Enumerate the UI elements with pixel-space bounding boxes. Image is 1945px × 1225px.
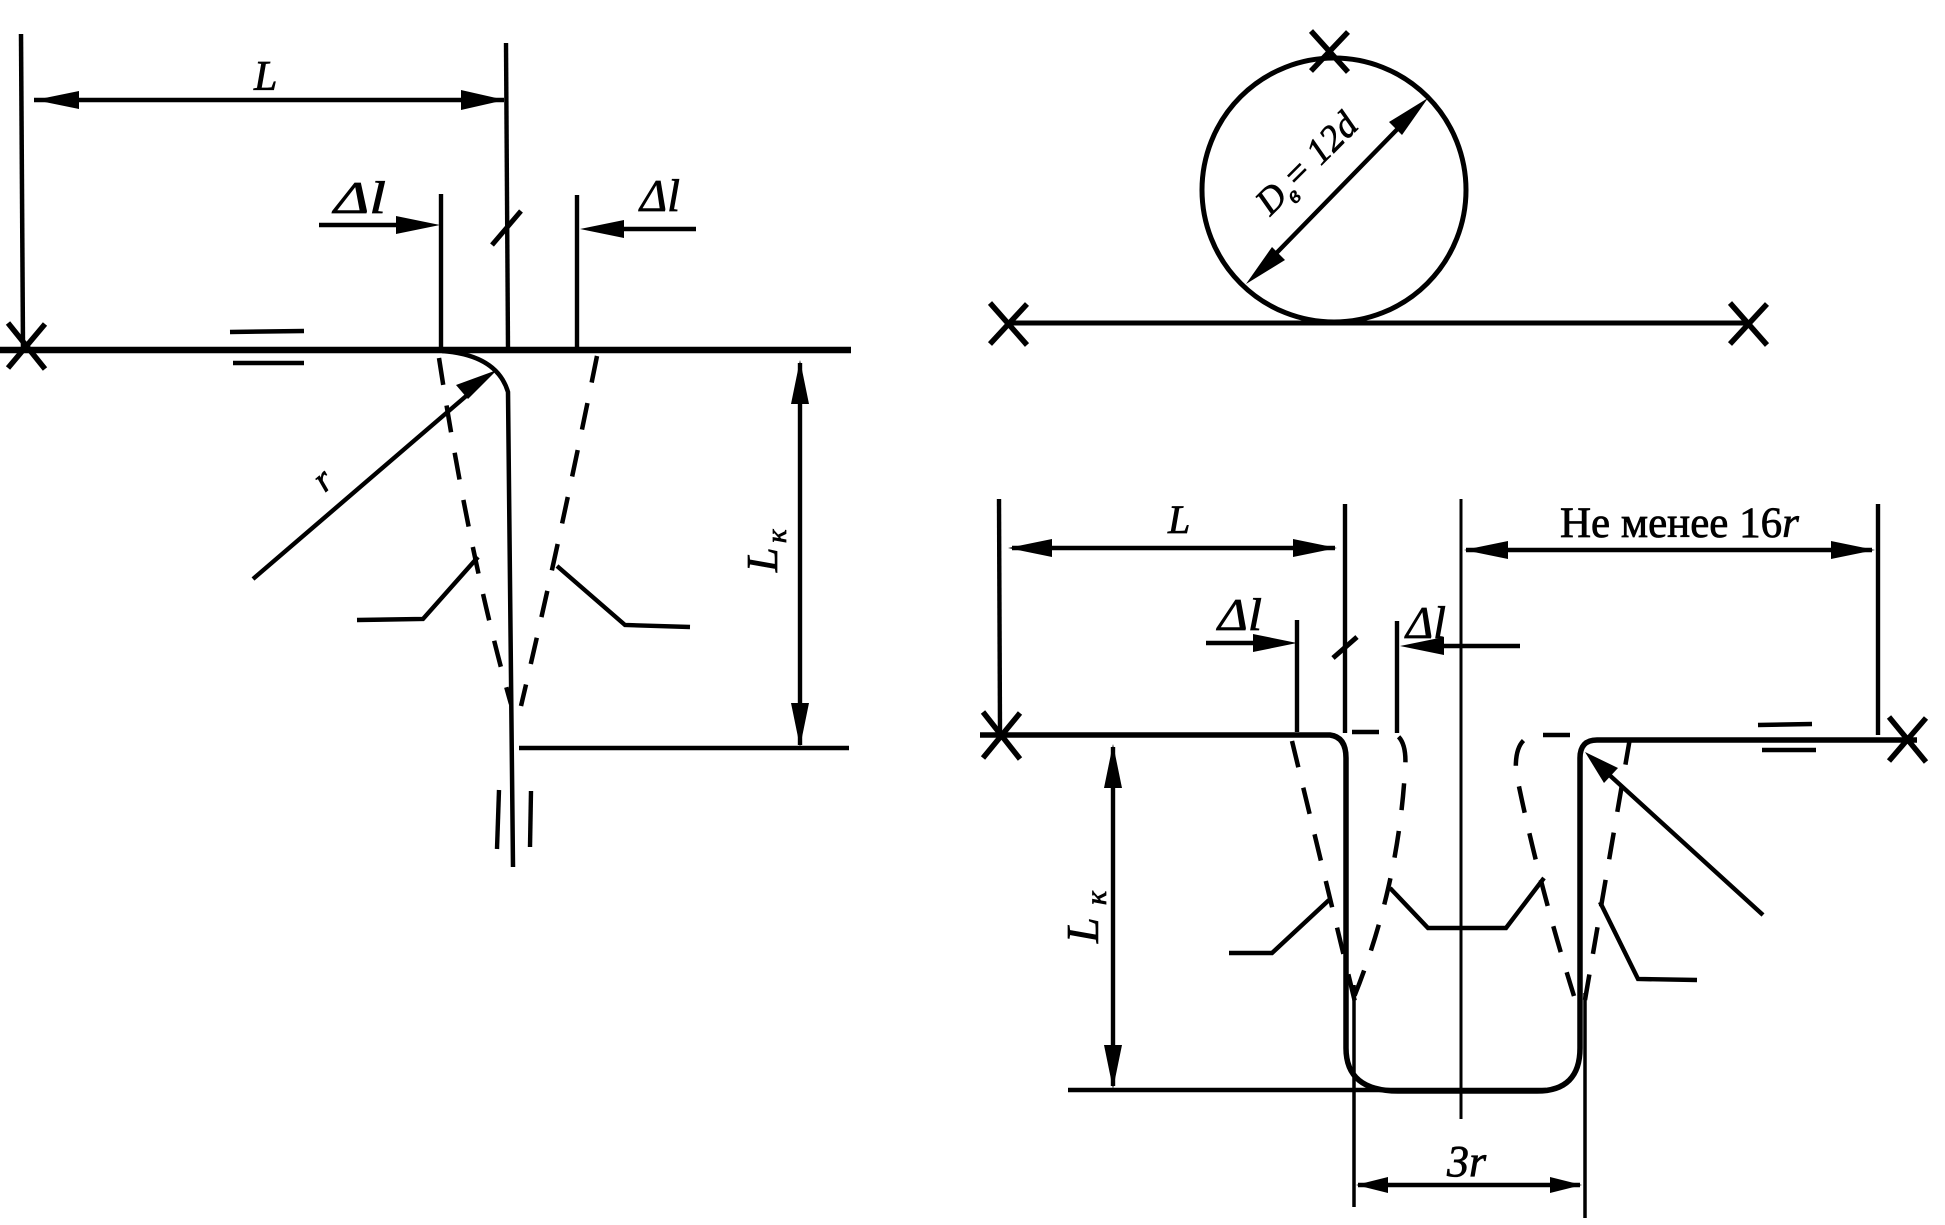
node: ground X left	[8, 323, 45, 369]
wire: right extension line	[506, 43, 508, 349]
ground level mark right fig above	[1758, 724, 1812, 725]
label Dв = 12d	[1247, 104, 1371, 228]
label Lк	[738, 529, 793, 573]
arrowhead Lк up	[1104, 744, 1122, 788]
dimension 16r arrow	[1466, 548, 1872, 552]
ground level mark above	[230, 331, 304, 332]
break slash	[492, 211, 521, 245]
arrowhead L left	[35, 91, 79, 109]
svg-text:L: L	[253, 54, 277, 100]
svg-text:L: L	[738, 548, 787, 573]
radius arrowhead	[456, 370, 497, 399]
leader left (right fig)	[1229, 900, 1329, 953]
3r extension line left	[1352, 985, 1356, 1207]
svg-text:3r: 3r	[1446, 1137, 1487, 1186]
svg-text:к: к	[1080, 890, 1113, 905]
node X ground left	[983, 712, 1020, 759]
dashed position line left-inner (top bend)	[1352, 732, 1405, 1002]
dashed position line left-outer	[1292, 741, 1355, 1002]
cable break mark left	[497, 790, 499, 849]
arrowhead Lк down	[791, 703, 809, 747]
center line of trench	[1460, 499, 1463, 1119]
svg-text:L: L	[1057, 917, 1108, 944]
bottom reference line right fig	[1068, 1088, 1546, 1093]
cable line top right	[1011, 321, 1748, 326]
dimension Δl right arrow	[620, 227, 696, 231]
node X ground right	[1889, 717, 1926, 762]
dashed position line right-outer	[1585, 738, 1630, 1000]
leader right (right fig)	[1600, 902, 1697, 980]
svg-text:Δl: Δl	[1216, 589, 1262, 640]
extension tick Δl left	[439, 194, 443, 348]
diameter arrowhead upper-right	[1389, 98, 1428, 135]
diameter arrowhead lower-left	[1246, 247, 1285, 284]
svg-text:к: к	[761, 529, 793, 543]
ground level mark below	[233, 361, 304, 366]
radius arrow r shaft	[253, 391, 472, 579]
ground + trench outline	[980, 735, 1917, 1091]
svg-text:= 12d: = 12d	[1274, 104, 1367, 197]
svg-text:L: L	[1167, 497, 1190, 542]
arrowhead L right	[461, 90, 505, 110]
arrowhead Lк down	[1104, 1045, 1122, 1089]
ground line left figure	[0, 347, 851, 354]
svg-text:Δl: Δl	[331, 172, 386, 223]
svg-text:r: r	[304, 459, 341, 499]
node X at circle top	[1311, 31, 1348, 72]
trench-left extension line	[1343, 504, 1347, 733]
dimension L arrow	[34, 98, 504, 102]
cable: solid bend and vertical run	[442, 351, 513, 867]
3r extension line right	[1583, 993, 1587, 1218]
diameter arrow shaft	[1256, 108, 1418, 274]
dimension L arrow (right fig)	[1012, 546, 1335, 550]
dimension Lк (right fig) line	[1111, 747, 1115, 1086]
leader left	[357, 557, 478, 620]
wire: left extension line	[21, 34, 23, 348]
ground level mark right fig below	[1762, 748, 1816, 753]
cable break mark right	[530, 791, 531, 847]
dashed cable position right	[521, 356, 597, 706]
wire: left extension line	[999, 499, 1000, 732]
label Lк right fig	[1057, 890, 1113, 944]
arrowhead Lк up	[791, 360, 809, 404]
Δl right arrow	[1440, 644, 1520, 648]
coil circle Dв	[1202, 58, 1466, 322]
leader right	[557, 566, 690, 627]
svg-text:Не менее 16r: Не менее 16r	[1560, 500, 1799, 547]
dimension Δl left arrow	[319, 223, 400, 227]
wire: right extension line	[1876, 504, 1880, 735]
Δl left tick	[1295, 620, 1299, 732]
dimension 3r arrow	[1358, 1183, 1580, 1187]
break slash right fig	[1333, 637, 1357, 658]
leader bracket middle	[1390, 878, 1544, 928]
svg-text:Δl: Δl	[638, 170, 680, 221]
bottom reference line left figure	[519, 746, 849, 751]
node X left end	[990, 303, 1027, 345]
dashed position line right-inner (top bend)	[1516, 735, 1574, 996]
Δl right tick	[1395, 621, 1399, 733]
node X right end	[1730, 303, 1767, 345]
Δl left arrow	[1206, 641, 1258, 645]
dashed cable position left	[439, 358, 511, 704]
extension tick Δl right	[575, 195, 579, 348]
long arrow to trench corner	[1605, 771, 1763, 915]
dimension Lк line	[798, 363, 802, 745]
